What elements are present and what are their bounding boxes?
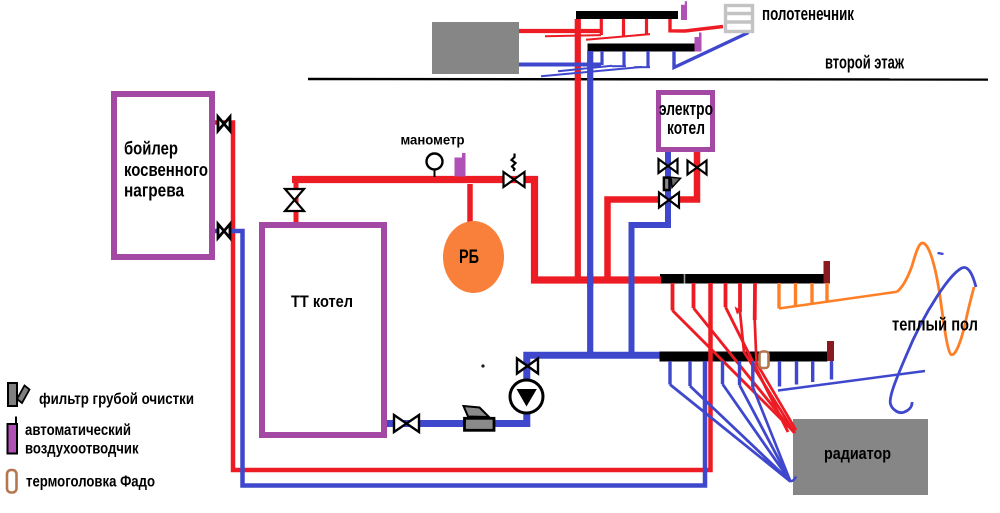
wire: orange floor slant bbox=[779, 292, 897, 309]
stray speck bbox=[481, 364, 484, 367]
air vent on bar1 bbox=[681, 1, 687, 20]
manifold bar1 (2nd floor supply) bbox=[576, 11, 678, 19]
wire: main red supply from TT boiler bbox=[292, 180, 661, 281]
wire: blue riser overlay at red crossing bbox=[587, 273, 593, 287]
wire: DHW boiler blue loop bbox=[215, 231, 705, 486]
wire: bar3 red drop 6 bbox=[753, 283, 757, 320]
svg-text:РБ: РБ bbox=[459, 246, 479, 268]
wire: electric boiler red out bbox=[608, 152, 698, 280]
wire: blue riser 1 bbox=[587, 51, 593, 355]
small blue dash bbox=[938, 253, 944, 254]
foot of drop 2 bbox=[612, 65, 626, 67]
maroon end tab bar3 bbox=[824, 261, 831, 284]
legend: thermal head symbol bbox=[7, 470, 17, 493]
wire: blue diagonals to radiator bbox=[670, 385, 791, 482]
wire: bar2 drop 1 bbox=[600, 51, 603, 65]
wire: bar3 red drop 1 + diagonal bbox=[671, 283, 675, 311]
svg-text:воздухоотводчик: воздухоотводчик bbox=[25, 441, 139, 458]
wire: orange drops from bar3 bbox=[777, 283, 780, 309]
wire: bar4 blue left drops bbox=[668, 361, 671, 385]
svg-text:ТТ котел: ТТ котел bbox=[291, 292, 353, 311]
electric boiler box bbox=[659, 93, 713, 150]
valve boiler top bbox=[218, 117, 230, 131]
wire: blue thin line C bbox=[541, 67, 642, 76]
manifold bar3 (1st floor supply) bbox=[660, 274, 824, 284]
wire: bar3 red drop 4 + diagonal bbox=[724, 283, 728, 307]
safety valve with squiggle bbox=[512, 154, 516, 172]
wire: TT boiler top stub bbox=[294, 179, 299, 222]
floor line (второй этаж boundary) bbox=[308, 78, 988, 81]
svg-text:котел: котел bbox=[667, 118, 705, 138]
wire: red slant line B bbox=[586, 34, 650, 40]
valve3 at crossing bbox=[659, 193, 679, 208]
wire: blue thin line D bbox=[558, 66, 612, 72]
warm floor blue loop bbox=[890, 267, 976, 412]
wire: bar1 drop 1 bbox=[600, 19, 603, 35]
radiator box bbox=[793, 419, 928, 495]
thermal head on bar4 bbox=[760, 352, 769, 369]
pump bbox=[510, 380, 543, 413]
filter on electric blue bbox=[664, 177, 681, 190]
svg-text:теплый пол: теплый пол bbox=[892, 315, 978, 335]
valve above pump bbox=[517, 359, 538, 374]
maroon end tab bar4 bbox=[827, 341, 834, 361]
svg-text:автоматический: автоматический bbox=[25, 422, 131, 439]
svg-text:термоголовка Фадо: термоголовка Фадо bbox=[26, 474, 155, 491]
legend: air vent symbol bbox=[8, 417, 18, 454]
foot of drop 3 bbox=[634, 66, 650, 68]
air vent on main line bbox=[455, 153, 466, 177]
wire: bar1 drop 4 to towel rail supply bbox=[670, 19, 723, 31]
valve on electric blue bbox=[659, 159, 678, 173]
legend: filter symbol bbox=[8, 383, 30, 406]
manometer bbox=[434, 170, 436, 177]
wire: blue floor slant bbox=[778, 371, 925, 391]
valve boiler bottom bbox=[218, 224, 230, 238]
svg-text:нагрева: нагрева bbox=[124, 181, 185, 201]
expansion tank РБ bbox=[443, 221, 504, 293]
wire: electric boiler blue in bbox=[632, 152, 669, 355]
svg-text:полотенечник: полотенечник bbox=[762, 4, 855, 24]
svg-text:косвенного: косвенного bbox=[124, 160, 208, 180]
hourglass valve on TT top bbox=[285, 189, 304, 211]
wire: blue return to gray box bbox=[519, 63, 601, 67]
svg-text:второй этаж: второй этаж bbox=[825, 53, 904, 73]
wire: bar1 drop 2 bbox=[622, 19, 625, 36]
wire: bar2 drop 3 bbox=[646, 51, 649, 67]
wire: red supply from gray box bbox=[519, 29, 602, 33]
warm floor orange sine bbox=[897, 243, 974, 355]
svg-text:манометр: манометр bbox=[401, 133, 465, 148]
manifold bar4 (1st floor return) bbox=[660, 352, 828, 362]
svg-text:электро: электро bbox=[659, 99, 713, 119]
svg-text:бойлер: бойлер bbox=[124, 139, 178, 159]
wire: blue return main (pump line to bar4) bbox=[387, 355, 660, 423]
wire: red riser (2nd floor to boiler room) bbox=[575, 19, 581, 280]
wire: DHW boiler red loop bbox=[215, 123, 711, 471]
arrow blob on drop 5 bbox=[735, 307, 742, 315]
wire: red thin line A bbox=[545, 35, 601, 36]
valve on electric red bbox=[688, 161, 707, 175]
second-floor heat source (gray box) bbox=[432, 22, 519, 74]
wire: bar2 drop 4 + towel rail return diagonal bbox=[674, 33, 749, 68]
wire: bar1 drop 3 bbox=[645, 19, 648, 35]
TT boiler box bbox=[262, 225, 384, 435]
boiler indirect (бойлер косвенного нагрева) bbox=[114, 94, 212, 257]
wire: bar2 drop 2 bbox=[622, 51, 625, 66]
towel rail полотенечник bbox=[726, 6, 753, 32]
wire: bar4 blue right drops bbox=[751, 361, 754, 387]
manifold bar2 (2nd floor return) bbox=[588, 44, 696, 52]
dirt filter near pump bbox=[464, 406, 495, 430]
hook at convergence bbox=[791, 477, 797, 482]
expansion tank РБ stem bbox=[467, 184, 473, 225]
valve on TT bottom bbox=[394, 415, 419, 432]
air vent on bar2 bbox=[695, 33, 702, 52]
svg-text:радиатор: радиатор bbox=[824, 444, 891, 463]
wire: bar3 red drop 2 + diagonal bbox=[692, 283, 696, 308]
svg-text:фильтр грубой очистки: фильтр грубой очистки bbox=[39, 391, 194, 408]
wire: bar3 red drop 5 jittery bbox=[738, 283, 742, 312]
notch on bar3 bbox=[684, 274, 686, 284]
